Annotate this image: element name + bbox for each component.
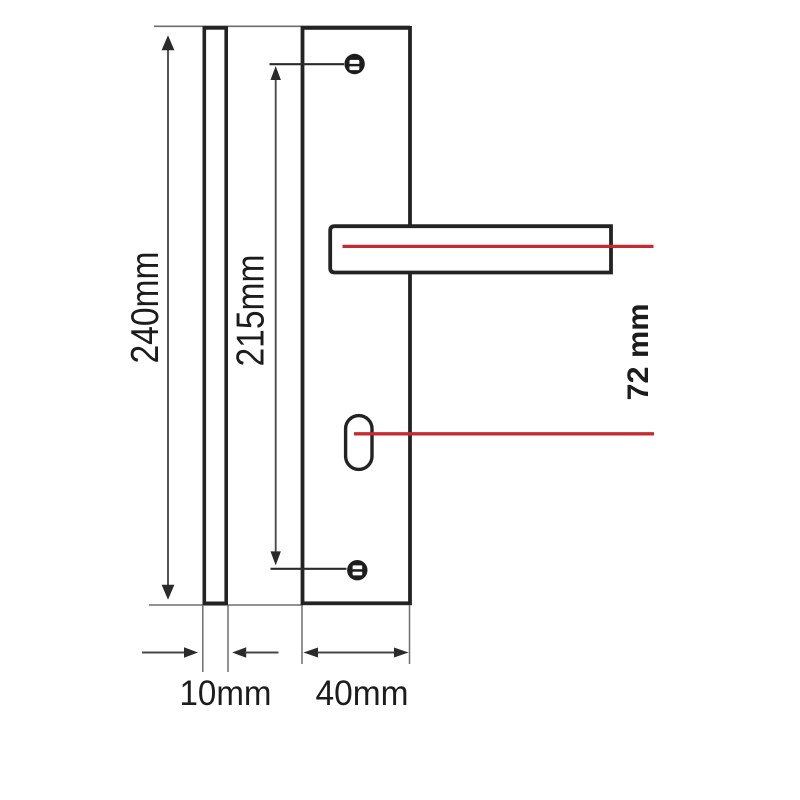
extension line below front plate right xyxy=(409,605,411,664)
bottom extension line xyxy=(149,604,303,606)
extension line below side plate left xyxy=(202,605,204,672)
svg-text:40mm: 40mm xyxy=(316,674,409,713)
dimension 215mm line xyxy=(270,64,347,569)
label 240mm xyxy=(124,252,167,364)
svg-text:240mm: 240mm xyxy=(124,252,167,364)
red leader line keyhole axis xyxy=(354,432,654,435)
label 40mm xyxy=(316,674,409,713)
extension line below side plate right xyxy=(227,605,229,672)
dimension 240mm line xyxy=(162,35,175,599)
label 10mm xyxy=(180,674,272,713)
top screw xyxy=(344,54,364,74)
keyhole slot xyxy=(346,416,372,470)
label 72 mm xyxy=(622,304,655,401)
front plate (40mm face view) xyxy=(303,28,411,603)
dimension 10mm arrows xyxy=(142,647,279,657)
red leader line handle axis xyxy=(343,245,654,248)
bottom screw xyxy=(347,560,367,580)
svg-text:10mm: 10mm xyxy=(180,674,272,713)
handle lever xyxy=(330,226,611,272)
top extension line xyxy=(154,25,410,27)
label 215mm xyxy=(230,255,273,367)
svg-text:72 mm: 72 mm xyxy=(622,304,655,401)
svg-text:215mm: 215mm xyxy=(230,255,273,367)
extension line below front plate left xyxy=(301,605,303,664)
side plate (10mm profile view) xyxy=(204,28,226,603)
dimension 40mm arrows xyxy=(304,648,409,658)
